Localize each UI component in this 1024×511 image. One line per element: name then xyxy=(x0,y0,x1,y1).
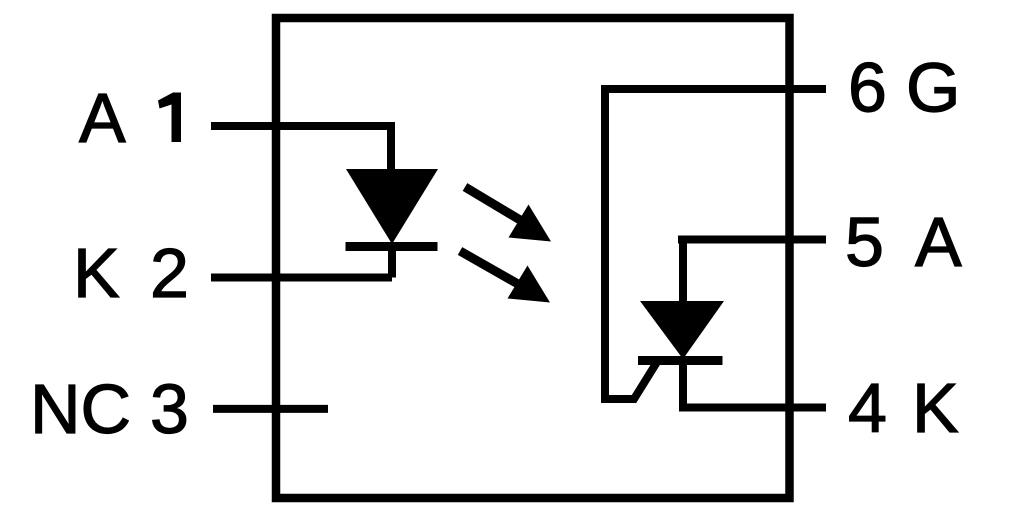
pin 3 label NC 3 xyxy=(30,370,189,448)
svg-text:5: 5 xyxy=(845,203,884,281)
svg-text:G: G xyxy=(906,49,960,127)
pin 6 label 6 G xyxy=(848,49,960,127)
pin 4 label 4 K xyxy=(848,369,959,447)
pin 1 wire (anode lead) xyxy=(211,126,391,172)
photo-SCR Q1 triangle xyxy=(640,301,724,359)
photo-SCR Q1 cathode bar xyxy=(638,356,723,365)
pin 4 wire (SCR cathode lead) xyxy=(679,404,826,412)
pin 5 label 5 A xyxy=(845,203,962,281)
package outline box xyxy=(276,18,790,498)
gate wire down left side of SCR xyxy=(605,85,657,399)
svg-text:2: 2 xyxy=(150,234,189,312)
LED D1 cathode bar xyxy=(346,242,438,251)
pin 6 wire (gate lead) xyxy=(605,85,826,93)
svg-text:A: A xyxy=(915,203,962,281)
svg-text:K: K xyxy=(912,369,959,447)
pin 1 label A 1 xyxy=(79,79,181,157)
svg-text:4: 4 xyxy=(848,369,887,447)
LED D1 bottom lead wire xyxy=(388,246,396,278)
pin 2 label K 2 xyxy=(73,234,189,312)
pin 2 wire (cathode lead) xyxy=(211,274,392,282)
pin 5 wire (SCR anode lead) xyxy=(678,236,826,244)
LED D1 triangle (anode) xyxy=(346,169,438,244)
svg-text:K: K xyxy=(73,234,120,312)
svg-text:NC: NC xyxy=(30,370,131,448)
svg-text:3: 3 xyxy=(150,370,189,448)
light emission arrow 2 xyxy=(460,251,550,303)
SCR anode drop wire xyxy=(679,240,687,303)
SCR cathode drop wire xyxy=(679,360,687,408)
light emission arrow 1 xyxy=(465,187,551,242)
pin 3 wire (NC stub) xyxy=(213,405,328,413)
svg-text:6: 6 xyxy=(848,49,887,127)
svg-text:A: A xyxy=(79,79,126,157)
